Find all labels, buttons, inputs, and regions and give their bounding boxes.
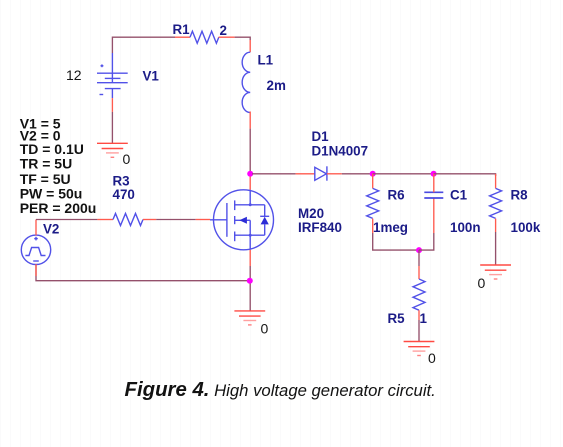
pin R1 right lead [219, 36, 235, 38]
junction dot R6 node [370, 171, 376, 177]
wire R5 node to R5 [418, 250, 420, 266]
pin V2 top lead [35, 220, 37, 236]
svg-text:D1N4007: D1N4007 [312, 144, 369, 159]
svg-text:PER = 200u: PER = 200u [20, 200, 97, 216]
mosfet M20 [210, 190, 274, 250]
svg-text:Figure 4. High voltage generat: Figure 4. High voltage generator circuit… [125, 379, 436, 401]
resistor R5 [413, 279, 425, 310]
pin M20 source lead [249, 250, 251, 266]
pin R5 top red [418, 266, 420, 279]
pin L1 top lead [249, 40, 251, 52]
wire R5 to ground [418, 320, 420, 342]
svg-text:2m: 2m [267, 78, 286, 93]
pin C1 top lead [433, 174, 435, 193]
mosfet diode triangle [261, 217, 269, 225]
diode D1 [315, 166, 327, 180]
svg-text:R1: R1 [173, 22, 191, 37]
wire diode to R6 node [342, 173, 373, 175]
svg-text:R6: R6 [388, 188, 405, 203]
wire source to ground node [249, 266, 251, 311]
inductor L1 [242, 52, 250, 112]
pin M20 gate lead [196, 219, 210, 221]
params text block [20, 116, 97, 217]
wire R3 to gate [156, 219, 196, 221]
pin D1 anode lead [296, 173, 315, 175]
wire R5 node to C1 bottom [419, 233, 434, 250]
mosfet internal junction dots [249, 203, 252, 206]
svg-text:D1: D1 [312, 129, 330, 144]
svg-text:100n: 100n [450, 220, 481, 235]
svg-text:0: 0 [123, 151, 131, 167]
wire V2 bottom [36, 264, 250, 281]
mosfet body-diode arrowhead [239, 217, 247, 224]
svg-text:L1: L1 [258, 53, 274, 68]
wire R6 bottom [373, 233, 419, 250]
pin R8 bottom lead [495, 219, 497, 232]
pin R3 right lead [143, 219, 156, 221]
resistor R6 [367, 188, 379, 218]
svg-text:TR = 5U: TR = 5U [20, 156, 73, 172]
junction dot source node [247, 278, 253, 284]
resistor R3 [113, 214, 143, 226]
ground under R5 [404, 342, 435, 356]
pin L1 bottom lead [249, 112, 251, 129]
resistor R8 [490, 188, 502, 218]
pin R1 left lead [175, 36, 190, 38]
svg-text:100k: 100k [511, 220, 541, 235]
pin V2 bottom red [35, 264, 37, 276]
svg-text:V2: V2 [43, 222, 59, 237]
wire top-left horizontal V1 to R1 [112, 37, 175, 53]
svg-text:IRF840: IRF840 [298, 220, 342, 235]
svg-text:1: 1 [420, 311, 428, 326]
ground under R8 [480, 265, 511, 279]
wire corner to L1 [235, 37, 251, 40]
svg-text:R8: R8 [511, 188, 529, 203]
svg-text:1meg: 1meg [373, 220, 408, 235]
wire R8 to ground [495, 232, 497, 265]
battery V1 [97, 53, 128, 98]
capacitor C1 [424, 192, 443, 198]
pin R6 bottom lead [372, 219, 374, 233]
junction dot drain node [247, 171, 253, 177]
wire V2 to R3 [36, 219, 97, 221]
pin R3 left lead [97, 219, 113, 221]
pin M20 drain lead [249, 172, 251, 190]
wire L1 to drain node [249, 129, 251, 172]
junction dot R5 node [416, 247, 422, 253]
pin R5 bottom lead [418, 310, 420, 320]
wire C1 node to R8 [434, 174, 496, 176]
svg-text:0: 0 [261, 321, 269, 337]
wire R6 node to C1 node [373, 173, 434, 175]
svg-text:V1: V1 [143, 69, 160, 84]
svg-text:470: 470 [113, 187, 135, 202]
pulse source V2 [21, 235, 50, 264]
svg-text:C1: C1 [450, 188, 468, 203]
pin D1 cathode lead [327, 173, 342, 175]
ground under M20 [234, 311, 265, 325]
pin C1 bottom lead [433, 198, 435, 233]
pin R8 top lead [495, 174, 497, 188]
resistor R1 [190, 31, 219, 43]
wire drain to diode [252, 173, 296, 175]
svg-text:2: 2 [220, 23, 227, 38]
ground under V1 [97, 143, 128, 157]
pin V1 bottom lead [111, 98, 113, 112]
junction dot C1 node [431, 171, 437, 177]
svg-text:M20: M20 [298, 206, 324, 221]
svg-text:R5: R5 [388, 311, 406, 326]
svg-text:0: 0 [478, 275, 486, 291]
pin R6 top lead [372, 174, 374, 189]
svg-text:0: 0 [428, 350, 436, 366]
svg-text:12: 12 [66, 67, 82, 83]
svg-text:TF = 5U: TF = 5U [20, 171, 71, 187]
wire V1 to ground [111, 112, 113, 143]
